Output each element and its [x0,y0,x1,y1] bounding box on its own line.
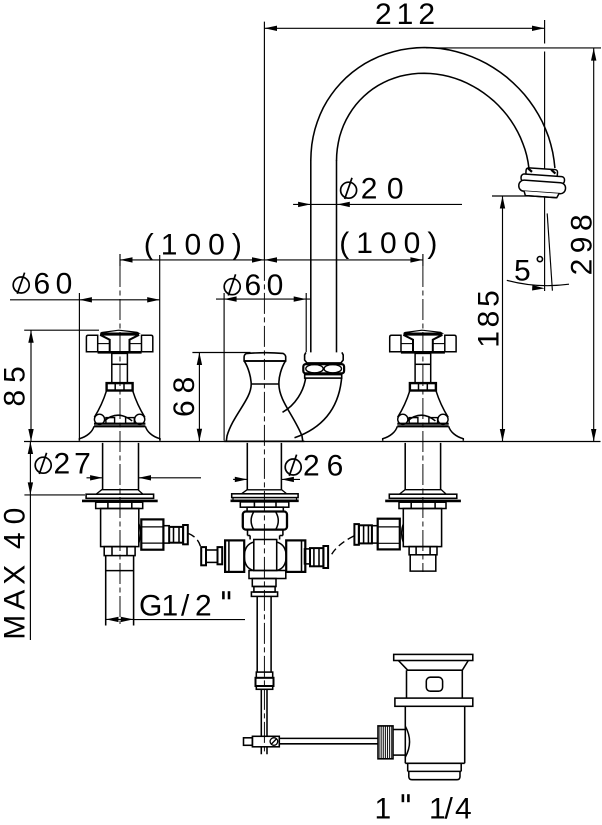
svg-text:(100): (100) [144,229,249,262]
tee block [254,540,277,571]
tee right small nut [310,548,323,566]
ball joint bulge [405,726,409,757]
end cap left port [183,525,188,544]
dim 298 line [593,48,595,441]
dim 212 line [265,27,545,29]
arm outer curve [295,378,342,438]
svg-text:2: 2 [195,589,215,622]
coupling lower ring [305,375,342,379]
5 deg arc arrow [532,285,545,291]
small nut left port [169,527,183,543]
big nut right port [378,519,400,550]
shank center [247,443,281,490]
drain top plate [394,654,473,660]
tee left end cap [201,547,206,565]
small nut right port [359,525,372,543]
spacer band right [409,547,437,555]
185 [500,196,505,209]
tick at right handle center [422,254,424,266]
svg-text:60: 60 [245,269,289,302]
dim d26 lines [233,478,247,480]
tee right fillet [277,542,287,571]
bottom collar [256,672,272,678]
svg-text:185: 185 [472,286,505,347]
spout inner arc [337,73,529,168]
hose right (dashed) [331,536,354,557]
tick 68 top [192,352,250,354]
svg-text:(100): (100) [339,227,444,260]
collar under tee [252,579,276,587]
centerline left handle [119,266,121,624]
base lines [224,440,304,442]
tailpipe center [257,596,271,672]
neck under hex [248,530,283,536]
drain mid flange [395,698,473,706]
knurled knob [378,726,393,759]
locknut left [96,502,143,508]
tee left big nut [225,540,244,572]
MAX40 [28,442,33,455]
centerline right handle [422,266,424,572]
tailpiece right [410,555,436,571]
dim 85 line [30,330,32,441]
label d60 center [224,274,240,295]
coupling nut [303,364,344,373]
svg-text:68: 68 [168,370,201,417]
flange bottom bold left [82,500,158,503]
svg-text:40: 40 [0,500,32,549]
adapter left port [163,526,169,543]
big nut left port [141,519,163,549]
flange plate center [232,494,298,498]
tick under aerator for 185 [492,195,546,197]
shank left [103,443,139,490]
svg-text:1: 1 [375,792,395,825]
G1/2 [106,617,119,622]
drain upper body [407,670,463,698]
tee right big nut [286,540,305,572]
svg-text:85: 85 [0,359,32,406]
flange chamfer center [242,490,287,494]
svg-text:5: 5 [514,255,534,288]
(100) right [265,257,278,262]
ext lines d60 center [223,293,225,441]
dim G1/2 line + leader [106,618,133,620]
flange plate right [389,494,457,498]
collar 2 [254,587,275,593]
thin flange [251,592,277,596]
bottom flange [256,686,272,689]
centerline faucet column [263,260,265,754]
212 [265,26,278,31]
svg-text:27: 27 [54,448,95,481]
tick at left handle center [119,254,121,266]
clamp block [252,736,279,747]
tee left stub [206,550,218,562]
neck line [251,383,279,385]
label d20 [341,178,357,199]
d60 left [79,297,92,302]
svg-text:/: / [181,589,193,622]
tee right adapter [305,549,311,564]
dim d60 center line [216,298,311,300]
dim 185 line [502,196,504,442]
overflow window [426,677,442,691]
68 [197,353,202,366]
vase neck + bell right [279,361,303,441]
drain lower body [405,706,464,763]
dim d20 leader [293,203,462,205]
arrowheads [28,26,597,623]
adapter right port [372,526,378,543]
step under flange [240,502,288,507]
locknut right [399,502,446,508]
spout left limb inner [336,161,338,353]
label d60 left [13,273,29,294]
d27 [90,475,103,480]
tee right end plate [323,546,328,568]
dim d60 left line [10,299,160,301]
flange bottom bold right [385,500,461,503]
ext line right of 212 (outlet axis) [544,20,546,44]
shank right [405,443,440,490]
dim d27 lines [87,477,103,479]
step 2 [247,507,283,511]
flange bottom bold [231,499,299,502]
base surface line [24,441,601,443]
ext lines d60 left [78,293,80,441]
spout left limb outer [310,160,312,352]
hose left (dashed) [189,534,202,552]
hex nut center [243,512,287,530]
rod below clamp [261,747,267,755]
label d26 [285,455,301,476]
svg-text:212: 212 [375,0,440,31]
svg-text:4: 4 [455,792,475,825]
aerator [518,167,567,198]
valve body right [403,509,441,547]
d26 [235,477,248,482]
tee left fillet [244,542,254,571]
tick MAX40 bottom [24,494,85,496]
dim 68 line [198,353,200,442]
tick 85 top [24,329,99,331]
5 deg angle arc [507,280,569,285]
drain tail upper [408,763,462,771]
dim MAX40 line [29,442,31,641]
left handle [79,330,160,441]
298 [591,48,596,61]
tangent top line for 298 [426,47,601,49]
svg-text:MAX: MAX [0,560,32,640]
neck 2 [250,536,280,540]
(100) left [120,257,133,262]
flange plate left [86,494,154,498]
spout outer arc [311,48,555,169]
dim (100) right line [265,259,423,261]
dim (100) left line [120,259,265,261]
tee left cap plate [218,547,223,564]
svg-text:26: 26 [303,450,350,483]
tee bottom wide band [249,571,286,579]
tube coupling collar [305,352,344,363]
right handle [383,330,464,441]
svg-text:20: 20 [361,173,413,206]
pull rod [261,689,267,736]
85 [28,330,33,343]
flange chamfer right [400,490,446,494]
svg-text:298: 298 [566,209,599,276]
horizontal rod [279,737,378,739]
port bulge right body [402,523,404,543]
vase neck + bell left [226,361,251,441]
port bulge left body [139,523,141,543]
left stub of lever [244,738,253,746]
flange chamfer left [96,490,142,494]
svg-text:60: 60 [34,268,78,301]
spacer band left [104,547,135,556]
bottom hex [256,678,274,686]
d20 [298,202,311,207]
drain funnel [398,661,468,671]
vase cap [244,353,286,361]
drain tail lower [409,771,460,779]
ball joint stem [393,729,405,731]
svg-text:1: 1 [162,589,182,622]
d60 center [224,296,237,301]
ext line left of 212 / center solid [263,22,265,260]
arm inner curve [283,378,306,412]
tailpiece left [106,556,134,626]
clamp screw [270,738,278,746]
label d27 [35,453,51,474]
5 deg slant axis [547,213,552,290]
valve body left [101,509,139,547]
end cap right port [354,524,359,545]
